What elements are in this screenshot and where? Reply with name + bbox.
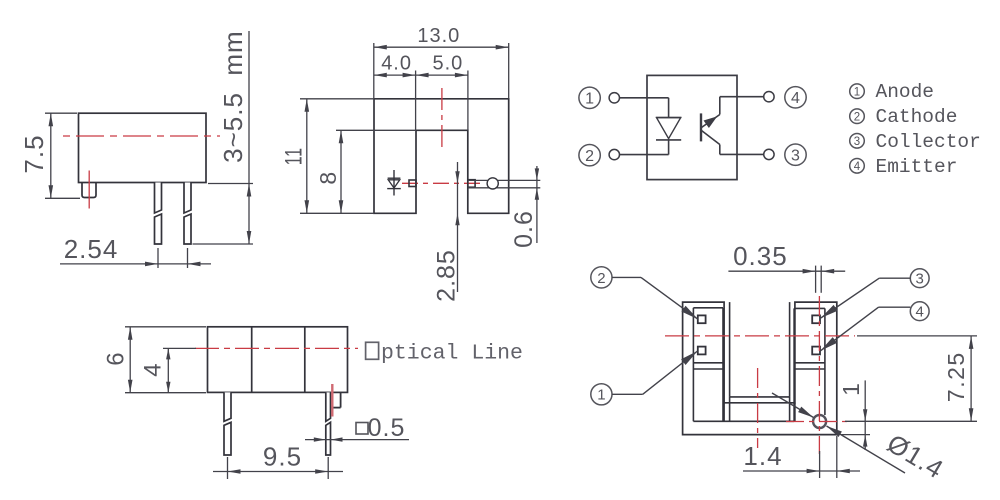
svg-text:2.54: 2.54 xyxy=(64,234,119,264)
svg-text:1.4: 1.4 xyxy=(743,441,782,471)
svg-text:8: 8 xyxy=(315,171,341,185)
svg-text:Cathode: Cathode xyxy=(876,106,958,128)
svg-text:3: 3 xyxy=(854,136,860,148)
svg-text:Emitter: Emitter xyxy=(876,156,958,178)
svg-text:0.5: 0.5 xyxy=(368,414,406,442)
svg-text:4: 4 xyxy=(916,304,924,321)
svg-text:0.35: 0.35 xyxy=(733,241,788,271)
svg-text:Anode: Anode xyxy=(876,81,935,103)
svg-text:4: 4 xyxy=(854,161,861,173)
svg-text:5.0: 5.0 xyxy=(432,53,463,75)
svg-text:2: 2 xyxy=(854,111,860,123)
svg-text:3: 3 xyxy=(916,271,924,288)
svg-text:4.0: 4.0 xyxy=(381,53,412,75)
svg-text:11: 11 xyxy=(281,147,308,165)
svg-text:1: 1 xyxy=(838,382,864,396)
svg-text:4: 4 xyxy=(140,362,167,376)
svg-text:7.5: 7.5 xyxy=(19,134,49,173)
svg-text:3~5.5 mm: 3~5.5 mm xyxy=(218,30,248,163)
svg-text:2: 2 xyxy=(585,148,594,165)
svg-text:4: 4 xyxy=(791,90,800,107)
svg-text:9.5: 9.5 xyxy=(263,442,302,472)
svg-text:Collector: Collector xyxy=(876,131,981,153)
svg-text:1: 1 xyxy=(854,86,860,98)
svg-text:6: 6 xyxy=(103,351,130,365)
svg-text:3: 3 xyxy=(791,147,800,164)
svg-text:1: 1 xyxy=(585,91,594,108)
svg-text:1: 1 xyxy=(597,387,605,404)
svg-text:0.6: 0.6 xyxy=(510,210,538,248)
svg-text:7.25: 7.25 xyxy=(943,351,969,402)
svg-text:13.0: 13.0 xyxy=(417,25,460,47)
svg-text:2.85: 2.85 xyxy=(433,249,461,302)
svg-text:2: 2 xyxy=(597,270,605,287)
svg-text:ptical Line: ptical Line xyxy=(381,342,523,366)
